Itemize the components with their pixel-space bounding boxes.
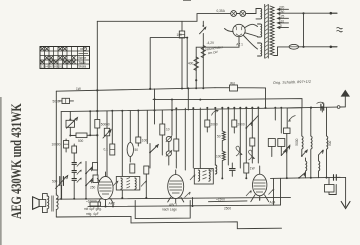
svg-text:10000: 10000 bbox=[52, 143, 61, 147]
svg-text:100: 100 bbox=[216, 155, 222, 159]
label 1500 bbox=[209, 200, 248, 203]
bottom rail A bbox=[56, 197, 290, 199]
tube V3 pin stubs bbox=[251, 198, 269, 201]
primary winding zigzag bbox=[270, 6, 274, 56]
trimmer arrows at IFT1 bbox=[113, 181, 118, 187]
switch contact SW-a bbox=[302, 150, 308, 156]
output transformer primary bbox=[47, 194, 49, 213]
scan edge smudge bbox=[0, 97, 2, 245]
grid resistor box bbox=[93, 163, 98, 171]
IF transformer 2 bbox=[194, 169, 213, 185]
svg-text:2000: 2000 bbox=[211, 123, 218, 127]
svg-text:mit 4µF geg.: mit 4µF geg. bbox=[84, 207, 102, 211]
secondary winding S1 bbox=[256, 9, 262, 19]
junction dots on screen rail bbox=[192, 107, 194, 109]
right drop wires bbox=[274, 178, 281, 205]
coil above IFT2 bbox=[215, 165, 217, 174]
svg-text:Wd: Wd bbox=[230, 81, 235, 85]
trimmer caps stack on x74 bbox=[72, 163, 76, 165]
verticals cluster A bbox=[112, 110, 162, 198]
mains terminal bottom bbox=[330, 46, 333, 49]
osc coil L2 bbox=[222, 151, 225, 178]
svg-text:2500: 2500 bbox=[224, 206, 231, 210]
label mains bbox=[337, 28, 343, 32]
IF transformer 1 bbox=[116, 177, 140, 191]
switch arrows mid-band bbox=[246, 122, 252, 129]
band switch arrows bbox=[86, 179, 93, 186]
svg-text:50: 50 bbox=[217, 135, 221, 139]
node dot bbox=[195, 79, 197, 81]
wire y135 bbox=[70, 134, 97, 136]
svg-text:Taste: Taste bbox=[78, 60, 86, 64]
svg-text:500: 500 bbox=[78, 139, 84, 143]
inner rail (screen grid) bbox=[61, 108, 302, 112]
svg-text:ABC1: ABC1 bbox=[169, 203, 178, 207]
wire fuse to mains terminal bbox=[299, 46, 331, 48]
small box under rail bbox=[325, 185, 335, 193]
antenna coil La2 bbox=[311, 136, 312, 178]
wire top rail from node x97 to lamps bbox=[97, 14, 230, 22]
speaker wires bbox=[43, 194, 48, 213]
bottom rail B bbox=[88, 205, 281, 207]
trimmer circle 2 bbox=[166, 151, 171, 156]
small box 100 bbox=[136, 137, 141, 143]
antenna coil La1 bbox=[302, 136, 303, 156]
table corner symbol bbox=[83, 47, 86, 50]
svg-text:0: 0 bbox=[280, 24, 282, 28]
antenna coil La3 bbox=[327, 136, 328, 178]
svg-text:AK2: AK2 bbox=[109, 201, 116, 205]
small box right pair bbox=[268, 139, 275, 147]
rectifier tube AZ1 bbox=[233, 24, 245, 36]
box under V2 left leg bbox=[135, 201, 190, 219]
switch arrows at V3 bbox=[246, 191, 251, 197]
cap box 0,1 bbox=[110, 144, 115, 155]
loudspeaker bbox=[33, 197, 40, 210]
grid capacitor box 250 bbox=[93, 175, 98, 183]
wire y37 link bbox=[150, 38, 187, 89]
secondary winding S3 bbox=[258, 43, 262, 56]
switch contact on bottom rail bbox=[299, 172, 306, 178]
svg-text:250: 250 bbox=[90, 186, 96, 190]
corner arrow (adjustable core) bbox=[286, 108, 288, 134]
junction dots bottom right rail bbox=[286, 177, 288, 179]
dial lamp L1 0.35A bbox=[231, 11, 237, 17]
tube V3 AL4 bbox=[253, 174, 267, 196]
coil La4 bbox=[306, 158, 307, 178]
svg-text:2000: 2000 bbox=[238, 123, 245, 127]
svg-text:AZ 1: AZ 1 bbox=[236, 43, 243, 47]
mains switch arrow bbox=[202, 21, 204, 88]
wire lamps to transformer bbox=[237, 9, 257, 14]
switch box 2000 b bbox=[232, 120, 237, 127]
svg-text:-4,2V: -4,2V bbox=[207, 41, 215, 45]
svg-text:AL4: AL4 bbox=[270, 201, 276, 205]
band switch verticals bbox=[185, 108, 258, 179]
bottom right rail bbox=[271, 177, 341, 178]
capacitor to earth bbox=[334, 175, 337, 181]
switch curl on rail bbox=[212, 110, 219, 115]
table X marks row4 bbox=[41, 61, 76, 64]
bottom rail C bbox=[131, 222, 282, 229]
tap low bbox=[278, 27, 289, 29]
mains terminal top bbox=[330, 12, 333, 15]
svg-text:125: 125 bbox=[279, 15, 285, 19]
mains link vertical bbox=[303, 13, 305, 47]
svg-text:AEG 430WK und 431WK: AEG 430WK und 431WK bbox=[8, 103, 24, 219]
inner left vertical bbox=[60, 112, 62, 199]
box 5000 bbox=[174, 139, 179, 151]
antenna symbol bbox=[344, 96, 346, 107]
capacitor 10000 bbox=[64, 141, 69, 149]
vertical x154 anode feed bbox=[154, 89, 156, 124]
screen resistor x97 box bbox=[95, 120, 100, 129]
junctions on x97 feeder bbox=[96, 89, 98, 91]
bottom rail short bbox=[56, 216, 131, 223]
antenna terminal bbox=[337, 106, 340, 109]
switch arrow mid bbox=[150, 145, 159, 153]
svg-text:400: 400 bbox=[188, 62, 194, 66]
capacitor small bbox=[72, 146, 77, 153]
tap 150 (to mains) bbox=[278, 13, 331, 15]
coil La5 bbox=[319, 155, 320, 178]
svg-text:≈1500: ≈1500 bbox=[216, 198, 225, 202]
main top rail +HT bbox=[56, 88, 215, 92]
table X marks row1 bbox=[41, 47, 67, 51]
node dots on antenna rail bbox=[310, 107, 312, 109]
primary bottom lead to fuse bbox=[274, 47, 289, 56]
svg-text:50000: 50000 bbox=[101, 123, 110, 127]
feedthrough cap top left bbox=[62, 98, 70, 103]
rail y99 bbox=[153, 98, 201, 100]
tap 220 bbox=[278, 8, 289, 10]
left outer vertical bbox=[55, 91, 57, 193]
rail y88 segment to corner bbox=[215, 88, 266, 108]
switch arrows at V2 bbox=[185, 192, 191, 198]
wire stub top edge bbox=[183, 0, 191, 2]
earth wire and arrow bbox=[336, 177, 345, 206]
trimmer on x107 bbox=[106, 111, 108, 128]
svg-text:1W: 1W bbox=[250, 167, 255, 171]
svg-text:1 2 3 4 5 6 7 8 9 10 11: 1 2 3 4 5 6 7 8 9 10 11 bbox=[41, 65, 64, 69]
padder box bbox=[250, 138, 255, 146]
wire AZ1 anode leads to transformer winding bbox=[245, 24, 258, 36]
svg-text:50: 50 bbox=[135, 148, 139, 152]
resistor above IFT1 bbox=[130, 164, 135, 173]
tube V2 ABC1 bbox=[168, 175, 184, 199]
switch table frame bbox=[40, 47, 90, 69]
osc coil L1 bbox=[222, 131, 225, 151]
wire antenna rail bbox=[287, 107, 345, 108]
trimmer cap on rail bbox=[321, 104, 324, 110]
svg-text:50: 50 bbox=[209, 169, 213, 173]
capacitor block C (PSU left) bbox=[181, 21, 183, 88]
wave switch curl arrow 2 bbox=[248, 150, 254, 160]
svg-text:Skala: Skala bbox=[78, 65, 86, 69]
box on rail y88 bbox=[230, 85, 238, 91]
box 10 vertical bbox=[160, 124, 165, 135]
tube V1 AK2 bbox=[98, 176, 113, 199]
anode resistor box tube3 bbox=[244, 163, 249, 173]
switch box 2000 a bbox=[205, 120, 210, 127]
svg-text:110: 110 bbox=[279, 19, 284, 23]
svg-text:nach Lage: nach Lage bbox=[162, 208, 177, 212]
resistor on switch branch bbox=[201, 46, 205, 58]
svg-text:100: 100 bbox=[142, 139, 148, 143]
svg-text:5000: 5000 bbox=[53, 99, 60, 103]
coil oval bbox=[127, 143, 133, 157]
svg-text:150: 150 bbox=[279, 10, 285, 14]
dial lamp L2 bbox=[240, 11, 246, 17]
wave switch curl arrow 1 bbox=[236, 146, 242, 156]
svg-text:500: 500 bbox=[52, 180, 58, 184]
secondary winding S2 bbox=[258, 24, 262, 37]
resistor bottom bbox=[90, 202, 101, 206]
vertical x172 bbox=[171, 100, 173, 136]
svg-text:10: 10 bbox=[166, 128, 170, 132]
fuse bbox=[289, 44, 299, 49]
tube V1 pin stubs bbox=[98, 203, 113, 207]
wire verticals antenna coils bbox=[302, 107, 327, 136]
feedback line jog bbox=[192, 197, 194, 206]
small cap pair bbox=[230, 169, 236, 171]
tuning capacitor variable bbox=[60, 177, 64, 186]
long vertical x97 bbox=[96, 21, 98, 177]
svg-text:0,1: 0,1 bbox=[104, 148, 109, 152]
output transformer secondary bbox=[56, 193, 58, 217]
resistor R (HT bleeder) bbox=[194, 57, 198, 70]
svg-text:0,35A: 0,35A bbox=[217, 9, 226, 13]
wire AZ1 cathode to HT rail bbox=[196, 29, 239, 89]
trimmer circle 1 bbox=[166, 136, 171, 141]
vertical x150 bbox=[149, 88, 151, 90]
resistor 500 bbox=[76, 133, 87, 138]
wire upper rail to antenna corner bbox=[201, 99, 303, 108]
svg-text:5000: 5000 bbox=[295, 138, 299, 145]
transformer core bbox=[265, 5, 269, 59]
vertical x188 bbox=[187, 88, 189, 110]
svg-text:500: 500 bbox=[328, 140, 332, 146]
svg-text:1W: 1W bbox=[76, 87, 81, 91]
volume pot bbox=[66, 120, 75, 127]
wire AZ1 filament lead bbox=[244, 36, 258, 50]
trimmer arrow IFT2 bbox=[190, 175, 195, 180]
box above IFT right bbox=[144, 166, 149, 174]
tap 125 bbox=[278, 17, 289, 19]
tap 110 bbox=[278, 22, 289, 24]
svg-text:mtg. 4µF: mtg. 4µF bbox=[86, 212, 99, 216]
trimmer box right bbox=[284, 128, 291, 134]
inner loop corner bbox=[89, 111, 91, 135]
svg-text:100: 100 bbox=[177, 33, 183, 37]
table X marks row3 bbox=[45, 56, 76, 60]
